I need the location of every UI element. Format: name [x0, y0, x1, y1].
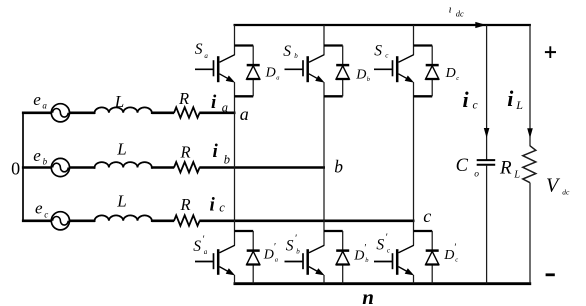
diode D'_b antiparallel with S'_b — [342, 231, 344, 284]
svg-text:c: c — [44, 209, 48, 219]
svg-text:R: R — [180, 195, 191, 214]
arrow i_L load current — [527, 128, 533, 138]
svg-text:D: D — [353, 248, 364, 263]
capacitor branch wire upper — [486, 25, 488, 160]
svg-text:V: V — [546, 175, 561, 197]
svg-text:S: S — [283, 43, 291, 60]
svg-text:D: D — [265, 66, 276, 81]
wire resistor to bridge leg phase a — [199, 112, 235, 115]
node 0 neutral bus vertical wire — [22, 112, 24, 222]
svg-text:S: S — [193, 238, 201, 255]
svg-text:i: i — [507, 86, 514, 111]
svg-text:c: c — [455, 257, 458, 264]
svg-text:D: D — [263, 248, 274, 263]
resistor R phase b — [174, 162, 200, 173]
svg-text:′: ′ — [274, 242, 276, 253]
svg-text:b: b — [296, 248, 300, 256]
svg-text:L: L — [116, 139, 126, 158]
capacitor C_o plates — [477, 159, 496, 161]
inductor L phase a — [95, 107, 152, 114]
svg-text:S: S — [376, 236, 384, 253]
diode D_a antiparallel with S_a — [252, 46, 254, 97]
dc bus bottom rail (negative, node n) — [234, 282, 532, 285]
arrow i_dc on top rail — [475, 22, 486, 28]
ac source e_c circle with sine — [51, 212, 69, 230]
igbt S'_b bottom switch — [324, 230, 343, 232]
leg b wire S_b emitter through node b to S'_b collector — [323, 82, 325, 245]
svg-text:C: C — [456, 156, 469, 176]
dc bus top rail (positive) — [234, 24, 531, 26]
wire inductor to resistor phase c — [152, 220, 174, 223]
svg-text:i: i — [463, 87, 470, 112]
inductor L phase b — [95, 162, 152, 169]
svg-text:b: b — [224, 152, 230, 166]
igbt S_b top switch — [324, 44, 343, 46]
diode D_b antiparallel with S_b — [342, 46, 344, 97]
svg-text:b: b — [365, 257, 369, 264]
diode D'_a antiparallel with S'_a — [252, 231, 254, 284]
resistor R phase a — [174, 107, 200, 118]
svg-text:′: ′ — [295, 234, 297, 245]
plus terminal — [545, 51, 556, 53]
svg-text:o: o — [474, 169, 479, 179]
leg c wire S'_c emitter to bottom rail — [413, 275, 415, 284]
svg-text:L: L — [513, 169, 520, 180]
leg c wire from top rail to S_c collector — [413, 25, 415, 55]
inductor L phase c — [95, 215, 152, 222]
svg-text:S: S — [374, 42, 382, 59]
svg-text:b: b — [367, 76, 371, 83]
svg-text:e: e — [33, 146, 41, 165]
leg b wire from top rail to S_b collector — [323, 25, 325, 55]
wire inductor to resistor phase b — [152, 166, 174, 169]
igbt S_c top switch — [414, 44, 433, 46]
resistor R phase c — [174, 215, 200, 226]
svg-text:c: c — [423, 206, 431, 226]
igbt S'_c bottom switch — [414, 230, 433, 232]
svg-text:c: c — [456, 75, 459, 82]
svg-text:R: R — [499, 157, 512, 178]
svg-text:b: b — [43, 157, 48, 167]
svg-text:i: i — [211, 92, 217, 113]
capacitor branch wire lower — [486, 166, 488, 284]
load branch wire upper — [529, 25, 531, 146]
svg-text:′: ′ — [203, 234, 205, 245]
ac source e_b circle with sine — [51, 158, 69, 176]
leg a wire S'_a emitter to bottom rail — [234, 275, 236, 284]
svg-text:a: a — [275, 257, 278, 264]
svg-text:c: c — [473, 100, 478, 112]
svg-text:a: a — [222, 101, 228, 115]
leg a wire S_a emitter through node a to S'_a collector — [234, 82, 236, 245]
leg c wire S_c emitter through node c to S'_c collector — [413, 82, 415, 245]
load branch wire lower — [529, 183, 531, 284]
svg-text:c: c — [387, 247, 391, 255]
svg-text:dc: dc — [562, 188, 570, 197]
svg-text:b: b — [294, 52, 298, 60]
wire phase c from node 0 to ac source — [22, 220, 52, 223]
svg-text:a: a — [276, 75, 279, 82]
svg-text:i: i — [213, 141, 219, 162]
svg-text:a: a — [204, 248, 208, 256]
resistor R_L vertical zigzag — [523, 146, 536, 183]
leg a wire from top rail to S_a collector — [234, 25, 236, 55]
svg-text:S: S — [286, 237, 294, 254]
wire phase b from node 0 to ac source — [22, 166, 52, 169]
wire ac source to inductor phase b — [69, 166, 95, 169]
svg-text:L: L — [116, 191, 126, 210]
svg-text:ı: ı — [449, 3, 452, 15]
svg-text:b: b — [334, 157, 343, 177]
minus terminal — [546, 273, 555, 276]
svg-text:R: R — [180, 143, 191, 162]
igbt S_a top switch — [235, 44, 254, 46]
svg-text:D: D — [445, 66, 456, 81]
diode D'_c antiparallel with S'_c — [431, 231, 433, 284]
wire phase a from node 0 to ac source — [22, 112, 52, 115]
igbt S'_a bottom switch — [235, 230, 254, 232]
wire ac source to inductor phase a — [69, 112, 95, 115]
svg-text:e: e — [35, 199, 43, 218]
arrow i_c capacitor current — [484, 128, 490, 138]
svg-text:n: n — [362, 285, 374, 306]
leg b wire S'_b emitter to bottom rail — [323, 275, 325, 284]
svg-text:i: i — [210, 195, 216, 216]
wire resistor to bridge leg phase b — [199, 166, 325, 169]
svg-text:0: 0 — [11, 158, 20, 178]
svg-text:c: c — [385, 51, 389, 59]
svg-text:′: ′ — [364, 243, 366, 254]
svg-text:′: ′ — [386, 233, 388, 244]
svg-text:dc: dc — [456, 8, 464, 18]
svg-text:a: a — [240, 104, 249, 124]
wire resistor to bridge leg phase c — [199, 220, 414, 223]
svg-text:R: R — [178, 89, 189, 108]
svg-text:e: e — [33, 90, 41, 109]
svg-text:L: L — [114, 92, 124, 111]
svg-text:c: c — [219, 200, 225, 214]
svg-text:′: ′ — [454, 242, 456, 253]
wire inductor to resistor phase a — [152, 112, 174, 115]
svg-text:a: a — [204, 52, 208, 60]
diode D_c antiparallel with S_c — [431, 46, 433, 97]
svg-text:L: L — [515, 98, 523, 112]
svg-text:S: S — [195, 41, 203, 58]
svg-text:D: D — [443, 248, 454, 263]
svg-text:D: D — [355, 67, 366, 82]
svg-text:a: a — [42, 101, 47, 111]
wire ac source to inductor phase c — [69, 220, 95, 223]
ac source e_a circle with sine — [51, 104, 69, 122]
